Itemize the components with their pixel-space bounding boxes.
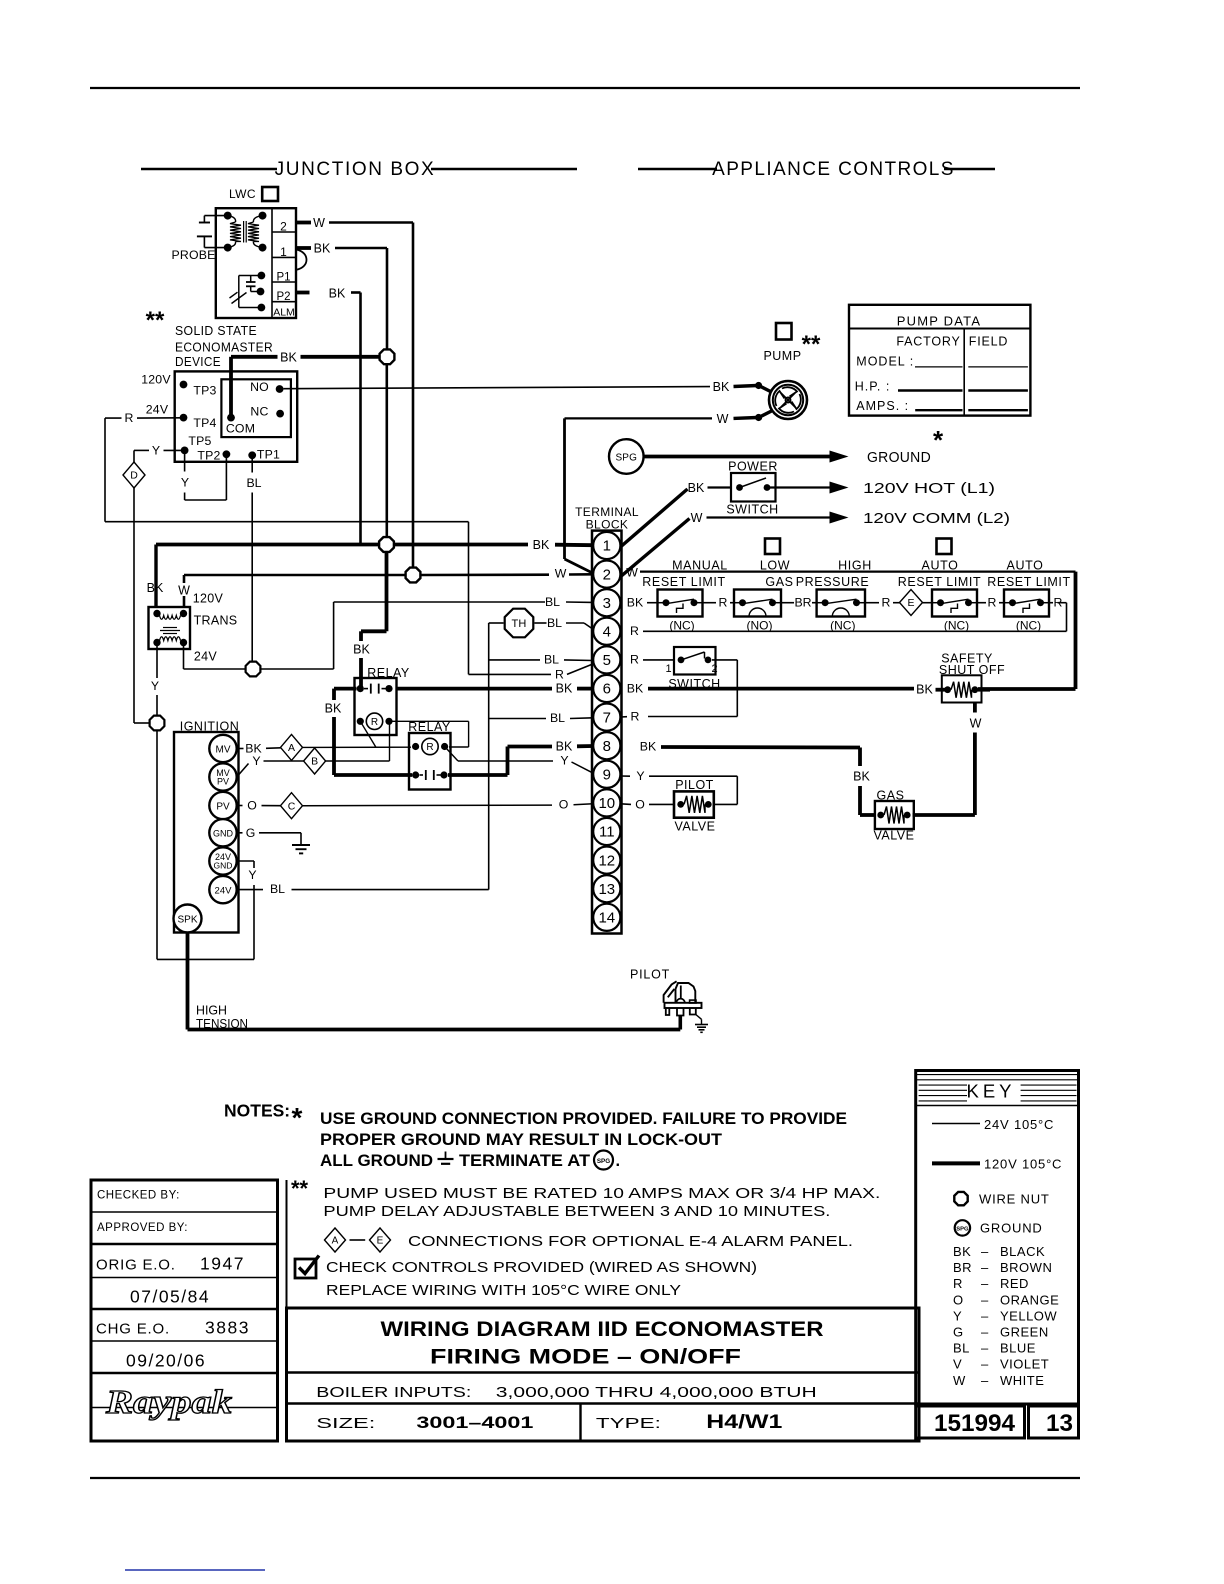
svg-text:ORIG E.O.: ORIG E.O. (96, 1257, 176, 1274)
wire BK relay2 contact out (448, 773, 508, 777)
svg-text:3001–4001: 3001–4001 (416, 1414, 533, 1432)
svg-text:PUMP DATA: PUMP DATA (897, 314, 981, 329)
svg-text:P1: P1 (276, 272, 290, 284)
svg-text:WIRING DIAGRAM IID ECONOMASTER: WIRING DIAGRAM IID ECONOMASTER (381, 1318, 824, 1341)
svg-text:1947: 1947 (200, 1254, 245, 1274)
wire O PV to diamond C (237, 805, 243, 807)
svg-text:CHG E.O.: CHG E.O. (96, 1321, 170, 1338)
svg-text:R: R (371, 717, 378, 728)
svg-text:BK: BK (556, 740, 573, 754)
svg-text:FIELD: FIELD (969, 335, 1008, 349)
terminal 12 (593, 847, 620, 874)
svg-text:8: 8 (603, 738, 611, 755)
wire BK from pin 1 (296, 246, 311, 250)
svg-text:BR: BR (794, 596, 811, 610)
svg-text:13: 13 (598, 881, 615, 898)
svg-text:BROWN: BROWN (1000, 1260, 1052, 1275)
title block left column (91, 1180, 278, 1441)
wire nut junction BK (380, 349, 395, 364)
junction box header (141, 168, 277, 171)
svg-text:TENSION: TENSION (196, 1017, 248, 1031)
svg-text:TRANS: TRANS (194, 614, 238, 628)
contact NC (276, 410, 284, 418)
test point TP3 (180, 381, 188, 389)
svg-text:ALM: ALM (273, 307, 295, 319)
svg-text:R: R (555, 668, 564, 682)
connection diamond E (900, 590, 923, 616)
terminal 6 (593, 675, 620, 702)
inline SPG symbol (594, 1151, 613, 1170)
svg-text:TP2: TP2 (197, 449, 220, 463)
svg-text:120V COMM (L2): 120V COMM (L2) (863, 511, 1010, 527)
svg-text:GAS: GAS (765, 575, 793, 589)
svg-text:1: 1 (603, 538, 611, 555)
svg-text:BOILER INPUTS:: BOILER INPUTS: (316, 1385, 471, 1401)
svg-text:3: 3 (603, 595, 611, 612)
svg-text:BK: BK (916, 683, 933, 697)
svg-text:–: – (981, 1373, 989, 1388)
svg-text:SPG: SPG (597, 1158, 610, 1165)
svg-text:120V 105°C: 120V 105°C (984, 1157, 1062, 1172)
svg-text:W: W (691, 511, 703, 525)
svg-text:PROPER GROUND MAY RESULT IN LO: PROPER GROUND MAY RESULT IN LOCK-OUT (320, 1131, 722, 1149)
svg-text:JUNCTION BOX: JUNCTION BOX (275, 159, 436, 180)
svg-text:14: 14 (598, 910, 615, 927)
terminal 14 (593, 904, 620, 931)
svg-text:.: . (616, 1152, 621, 1170)
wire NO to pump BK (284, 387, 711, 389)
transformer primary winding (160, 616, 181, 620)
svg-text:O: O (559, 798, 569, 812)
ignition terminal 24V GND (209, 847, 236, 874)
terminal 4 (593, 618, 620, 645)
indicator square low gas (765, 539, 780, 555)
svg-text:GND: GND (214, 861, 233, 871)
svg-text:BK: BK (713, 380, 730, 394)
svg-text:TYPE:: TYPE: (596, 1416, 661, 1432)
svg-text:ORANGE: ORANGE (1000, 1292, 1059, 1307)
svg-text:10: 10 (598, 795, 615, 812)
footer link line (125, 1569, 265, 1571)
ignition terminal SPK (174, 905, 202, 933)
ignition terminal MV/PV (209, 763, 236, 790)
svg-text:GROUND: GROUND (867, 450, 931, 466)
pump indicator square (776, 323, 792, 340)
svg-text:LWC: LWC (229, 187, 256, 201)
terminal 8 (593, 732, 620, 759)
terminal 13 (593, 875, 620, 902)
svg-text:PRESSURE: PRESSURE (796, 575, 870, 589)
svg-text:R: R (1054, 596, 1063, 610)
wire BK from P2 (296, 291, 310, 295)
wire R vertical to terminal 5 (468, 522, 470, 675)
terminal 9 (593, 761, 620, 788)
terminal 1 (593, 532, 620, 559)
wire W transformer riser (183, 575, 186, 583)
wire O terminal 10 to pilot valve (621, 803, 632, 806)
wire BL 24V to terminal 7 riser (237, 889, 263, 891)
svg-text:GND: GND (213, 829, 234, 839)
ground lug SPG (609, 439, 644, 474)
svg-text:–: – (981, 1260, 989, 1275)
svg-text:3883: 3883 (205, 1318, 250, 1338)
terminal block (592, 531, 622, 934)
test point TP1 (248, 451, 256, 459)
notes area left border (286, 1180, 288, 1308)
ignition terminal MV (209, 735, 236, 762)
pump W drop to terminal 2 (563, 418, 566, 559)
svg-text:W: W (313, 216, 325, 230)
probe transformer terminals (224, 212, 232, 220)
terminal 3 (593, 589, 620, 616)
svg-text:W: W (953, 1373, 966, 1388)
pump wire W (565, 417, 713, 419)
relay 1 coil diagonal (360, 721, 376, 747)
svg-text:120V: 120V (141, 373, 171, 387)
ground output wire (644, 455, 830, 459)
key wire nut symbol (954, 1192, 967, 1205)
svg-text:24V: 24V (194, 650, 218, 664)
svg-text:BK: BK (325, 702, 342, 716)
svg-text:**: ** (802, 331, 821, 358)
transformer secondary winding (160, 637, 181, 641)
svg-text:PROBE: PROBE (171, 248, 215, 262)
svg-text:BL: BL (953, 1341, 970, 1356)
svg-text:ECONOMASTER: ECONOMASTER (175, 340, 273, 355)
svg-text:–: – (981, 1276, 989, 1291)
svg-text:–: – (981, 1244, 989, 1259)
svg-text:RESET LIMIT: RESET LIMIT (898, 575, 981, 589)
svg-text:120V: 120V (193, 592, 224, 606)
svg-text:24V: 24V (146, 403, 169, 417)
wire R from TP4 (105, 417, 122, 419)
test point TP2 (223, 450, 231, 458)
svg-text:6: 6 (603, 681, 611, 698)
svg-text:Y: Y (636, 769, 644, 783)
ignition terminal 24V (209, 876, 236, 903)
svg-text:BK: BK (640, 740, 657, 754)
wire BK from COM to wire nut (229, 357, 233, 418)
svg-text:R: R (882, 596, 891, 610)
svg-text:PILOT: PILOT (675, 778, 714, 792)
note diamond E (370, 1228, 391, 1252)
svg-text:HIGH: HIGH (196, 1004, 227, 1018)
wire BK MV to diamond A (237, 748, 244, 750)
svg-text:SPK: SPK (177, 915, 197, 926)
svg-text:BK: BK (533, 538, 550, 552)
svg-text:COM: COM (226, 422, 255, 436)
svg-text:R: R (953, 1276, 963, 1291)
thermostat TH (505, 609, 534, 638)
key box (916, 1071, 1079, 1405)
svg-text:USE GROUND CONNECTION PROVIDED: USE GROUND CONNECTION PROVIDED. FAILURE … (320, 1110, 847, 1128)
svg-text:(NO): (NO) (747, 619, 773, 633)
contact NO (276, 385, 284, 393)
svg-text:FIRING MODE – ON/OFF: FIRING MODE – ON/OFF (430, 1346, 741, 1369)
svg-text:AUTO: AUTO (1007, 559, 1044, 573)
wire Y MVPV to diamond B (237, 764, 249, 778)
wire BK transformer riser (154, 545, 157, 608)
svg-text:G: G (953, 1325, 964, 1340)
probe transformer winding left (228, 216, 236, 222)
svg-text:P2: P2 (276, 291, 290, 303)
pump data table (849, 305, 1030, 416)
svg-text:W: W (717, 412, 729, 426)
svg-text:REPLACE WIRING WITH 105°C WIRE: REPLACE WIRING WITH 105°C WIRE ONLY (326, 1283, 681, 1299)
svg-text:H4/W1: H4/W1 (706, 1412, 783, 1433)
indicator square auto reset (937, 539, 952, 555)
svg-text:TP4: TP4 (193, 416, 216, 430)
transformer 120V/24V (149, 607, 191, 649)
wire Y relay2 to terminal 9 (458, 760, 553, 762)
svg-text:SIZE:: SIZE: (316, 1416, 375, 1432)
svg-text:APPROVED BY:: APPROVED BY: (97, 1222, 188, 1234)
wire switch to terminal 7 R (712, 659, 737, 661)
alarm internal network (239, 275, 262, 277)
svg-text:BK: BK (314, 242, 331, 256)
svg-text:TP3: TP3 (193, 384, 216, 398)
svg-text:RED: RED (1000, 1276, 1029, 1291)
svg-text:Y: Y (953, 1308, 962, 1323)
svg-text:5: 5 (603, 652, 611, 669)
relay 1 left contact link (334, 687, 357, 691)
svg-text:D: D (130, 470, 138, 482)
terminal 7 (593, 704, 620, 731)
svg-text:H.P. :: H.P. : (855, 380, 891, 394)
svg-text:TP1: TP1 (257, 448, 280, 462)
svg-text:BL: BL (544, 653, 559, 667)
svg-text:BLUE: BLUE (1000, 1341, 1036, 1356)
svg-text:BL: BL (246, 476, 261, 490)
svg-text:13: 13 (1046, 1410, 1073, 1437)
svg-text:FACTORY: FACTORY (896, 335, 960, 349)
drawing number boxes (916, 1406, 1025, 1438)
svg-text:TERMINATE AT: TERMINATE AT (459, 1152, 590, 1170)
wire W trunk to terminal 2 (184, 574, 406, 577)
svg-text:BK: BK (280, 351, 297, 365)
title block right section (287, 1308, 920, 1441)
wire Y transformer (156, 646, 158, 678)
terminal 10 (593, 789, 620, 816)
svg-text:11: 11 (599, 824, 615, 841)
svg-text:SPG: SPG (956, 1227, 969, 1233)
svg-text:24V 105°C: 24V 105°C (984, 1117, 1054, 1132)
svg-text:PILOT: PILOT (630, 968, 670, 982)
svg-text:07/05/84: 07/05/84 (130, 1287, 210, 1307)
svg-text:W: W (555, 567, 567, 581)
wire D to Y junction (133, 488, 135, 723)
svg-text:VIOLET: VIOLET (1000, 1357, 1049, 1372)
svg-text:24V: 24V (215, 886, 233, 897)
svg-text:G: G (246, 826, 256, 840)
wire BK relay2 to terminal 8 (506, 747, 510, 776)
svg-text:–: – (981, 1325, 989, 1340)
wire BK trunk to terminal 1 (156, 543, 380, 547)
svg-text:NOTES:: NOTES: (224, 1101, 290, 1121)
svg-text:WHITE: WHITE (1000, 1373, 1044, 1388)
svg-text:Y: Y (151, 679, 159, 693)
svg-text:2: 2 (711, 663, 717, 675)
svg-text:BK: BK (627, 596, 644, 610)
svg-text:PV: PV (216, 802, 230, 813)
svg-text:–: – (981, 1292, 989, 1307)
svg-text:R: R (630, 624, 639, 638)
svg-text:APPLIANCE CONTROLS: APPLIANCE CONTROLS (712, 159, 955, 180)
svg-text:Y: Y (252, 754, 260, 768)
probe transformer winding right (253, 216, 262, 222)
svg-text:*: * (292, 1102, 303, 1133)
svg-text:(NC): (NC) (830, 619, 855, 633)
svg-text:A: A (332, 1236, 339, 1247)
svg-text:O: O (953, 1292, 964, 1307)
pump motor (769, 381, 807, 419)
pilot burner assembly (665, 1003, 702, 1008)
svg-text:–: – (981, 1357, 989, 1372)
adjust slash symbol (232, 293, 247, 304)
wire nut 24V/BL (246, 662, 261, 677)
svg-text:SOLID STATE: SOLID STATE (175, 323, 257, 338)
wire BK relay1 to relay2 contact (334, 773, 412, 777)
svg-text:YELLOW: YELLOW (1000, 1308, 1057, 1323)
svg-text:TP5: TP5 (188, 434, 211, 448)
wire BL to terminal 5 (489, 659, 540, 661)
svg-text:VALVE: VALVE (874, 829, 915, 843)
svg-text:7: 7 (603, 709, 611, 726)
svg-text:BK: BK (329, 287, 346, 301)
svg-text:*: * (933, 425, 944, 455)
svg-text:3,000,000 THRU 4,000,000 BTUH: 3,000,000 THRU 4,000,000 BTUH (496, 1385, 817, 1401)
relay 2 coil (412, 743, 419, 750)
svg-text:W: W (970, 717, 982, 731)
svg-text:**: ** (291, 1176, 309, 1201)
svg-text:PV: PV (217, 777, 229, 787)
high tension lead (186, 933, 190, 1030)
wire Y from TP5 to diamond D (164, 449, 185, 451)
probe transformer core (243, 221, 245, 243)
svg-text:BL: BL (545, 595, 560, 609)
jumper TP5 to TP2 (184, 454, 186, 472)
connection diamond C (281, 793, 303, 819)
svg-text:Y: Y (560, 754, 568, 768)
svg-text:WIRE NUT: WIRE NUT (979, 1191, 1050, 1206)
test point TP5 (181, 447, 189, 455)
key ground symbol (955, 1220, 970, 1235)
svg-text:SWITCH: SWITCH (726, 503, 778, 517)
svg-text:AUTO: AUTO (922, 559, 959, 573)
pilot burner electrode drop (678, 1016, 682, 1030)
terminal 11 (593, 818, 620, 845)
svg-text:R: R (630, 653, 639, 667)
svg-text:BLOCK: BLOCK (586, 518, 629, 532)
wire W safety to gas valve (973, 703, 977, 713)
relay 1 contact (357, 685, 364, 692)
probe capacitor (204, 215, 227, 217)
svg-text:CHECK CONTROLS PROVIDED (WIRED: CHECK CONTROLS PROVIDED (WIRED AS SHOWN) (326, 1260, 757, 1276)
relay 1 coil right to diamond B (389, 721, 391, 761)
svg-text:2: 2 (603, 566, 611, 583)
svg-text:NC: NC (250, 405, 268, 419)
economaster device box (175, 371, 298, 461)
note diamond A (325, 1228, 346, 1252)
ground symbol ignition (300, 833, 302, 845)
svg-text:W: W (178, 584, 190, 598)
ignition terminal GND (209, 819, 236, 846)
wire W from pin 2 (296, 221, 311, 225)
svg-text:E: E (377, 1236, 384, 1247)
svg-text:09/20/06: 09/20/06 (126, 1351, 206, 1371)
page bottom rule (90, 1477, 1080, 1479)
wire safety right to frame (978, 688, 990, 692)
loop arc pin1 to P1 (296, 250, 307, 270)
relay 2 contact (412, 771, 419, 778)
svg-text:MODEL :: MODEL : (856, 355, 914, 369)
svg-text:4: 4 (603, 624, 611, 641)
svg-text:2: 2 (280, 220, 287, 234)
svg-text:1: 1 (280, 245, 287, 259)
pilot burner ground (696, 1015, 702, 1020)
relay 2 coil right diagonal Y (445, 747, 458, 762)
svg-text:O: O (635, 798, 645, 812)
terminal 5 (593, 646, 620, 673)
wire nut Y (150, 716, 165, 731)
svg-text:AMPS. :: AMPS. : (856, 399, 909, 413)
120V hot output wire (770, 486, 830, 488)
svg-text:151994: 151994 (934, 1410, 1015, 1437)
operating switch 1-2 (674, 647, 716, 675)
wire O to terminal 10 (303, 804, 553, 807)
wire Y terminal 9 to pilot valve (621, 775, 631, 777)
svg-text:HIGH: HIGH (838, 559, 872, 573)
key 120V sample (932, 1161, 980, 1165)
wire BK P2 riser (359, 293, 362, 545)
transformer core (163, 627, 177, 629)
svg-text:9: 9 (603, 767, 611, 784)
svg-text:C: C (288, 800, 296, 812)
svg-text:VALVE: VALVE (675, 820, 716, 834)
note checkbox (295, 1259, 316, 1278)
svg-text:–: – (981, 1341, 989, 1356)
key 24V sample (932, 1123, 980, 1125)
wire BL to terminal 7 (489, 718, 546, 720)
test point TP4 (180, 414, 188, 422)
svg-text:BR: BR (953, 1260, 972, 1275)
wire Y loop to ignition 24V GND (156, 731, 158, 959)
svg-text:BK: BK (627, 682, 644, 696)
wire W riser to junction (412, 223, 415, 569)
relay 1 coil (357, 718, 364, 725)
contact COM (227, 414, 235, 422)
svg-text:CHECKED BY:: CHECKED BY: (97, 1190, 180, 1202)
svg-text:Raypak: Raypak (105, 1384, 232, 1421)
Raypak logo (91, 1407, 278, 1409)
svg-text:BL: BL (270, 882, 285, 896)
svg-text:RESET LIMIT: RESET LIMIT (642, 575, 725, 589)
svg-text:Y: Y (152, 444, 160, 458)
svg-text:BK: BK (953, 1244, 971, 1259)
svg-text:V: V (953, 1357, 962, 1372)
svg-text:R: R (988, 596, 997, 610)
svg-text:LOW: LOW (760, 559, 790, 573)
wire BK riser to wire nut (386, 248, 389, 357)
svg-text:E: E (907, 597, 914, 609)
svg-text:O: O (247, 799, 257, 813)
svg-text:RESET LIMIT: RESET LIMIT (987, 575, 1070, 589)
connection diamond B (304, 748, 326, 774)
svg-text:B: B (311, 756, 318, 768)
svg-text:BL: BL (547, 616, 562, 630)
power switch (731, 473, 776, 502)
terminal 2 (593, 561, 620, 588)
